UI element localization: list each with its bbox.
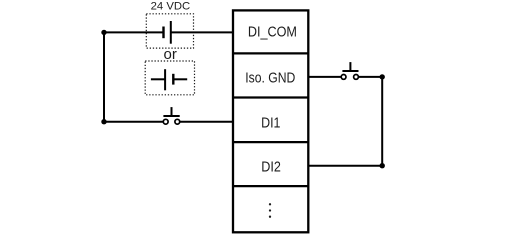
wire switch S1 to DI1 pin — [180, 121, 233, 123]
battery B2 negative plate (short bar) — [172, 74, 174, 85]
svg-text:DI_COM: DI_COM — [248, 24, 297, 41]
battery B1 positive plate (tall bar) — [170, 21, 172, 44]
terminal block outline — [233, 10, 308, 232]
battery B2 dotted enclosure — [145, 61, 194, 95]
svg-text:DI2: DI2 — [261, 158, 281, 175]
battery B1 negative plate (short bar) — [162, 27, 164, 39]
continuation ellipsis dots — [269, 203, 271, 218]
terminal divider DI2/ellipsis — [233, 185, 308, 187]
switch S1 left contact circle — [163, 119, 168, 124]
terminal divider Iso.GND/DI1 — [233, 96, 308, 98]
switch S2 right contact circle — [354, 75, 359, 80]
battery B2 positive plate (tall bar) — [164, 69, 166, 90]
node C junction dot — [380, 74, 385, 79]
svg-text:DI1: DI1 — [261, 114, 280, 131]
switch S1 actuator stem — [171, 107, 173, 116]
right rail wire (node C to node D) — [381, 77, 383, 166]
switch S2 left contact circle — [341, 75, 346, 80]
node A junction dot — [101, 30, 106, 35]
terminal divider DI_COM/Iso.GND — [233, 52, 308, 54]
wire Iso. GND pin to switch S2 — [308, 76, 341, 78]
switch S2 actuator bar — [342, 70, 358, 72]
wire switch S2 to node C — [358, 76, 382, 78]
svg-text:Iso. GND: Iso. GND — [245, 70, 295, 87]
wire node D to DI2 pin — [308, 165, 382, 167]
wire battery B1 positive plate to DI_COM pin — [171, 31, 233, 33]
wire top left (node A to battery B1 negative plate) — [104, 31, 164, 33]
switch S2 actuator stem — [349, 62, 351, 71]
switch S1 actuator bar — [163, 115, 179, 117]
node B junction dot — [101, 119, 106, 124]
left rail wire (node A to node B) — [103, 32, 105, 121]
wire node B to switch S1 — [104, 121, 163, 123]
battery B2 left stub wire — [151, 78, 165, 80]
svg-text:24 VDC: 24 VDC — [151, 1, 191, 13]
terminal divider DI1/DI2 — [233, 141, 308, 143]
battery B1 dotted enclosure — [146, 14, 193, 48]
node D junction dot — [380, 163, 385, 168]
battery B2 right stub wire — [173, 78, 187, 80]
switch S1 right contact circle — [175, 119, 180, 124]
